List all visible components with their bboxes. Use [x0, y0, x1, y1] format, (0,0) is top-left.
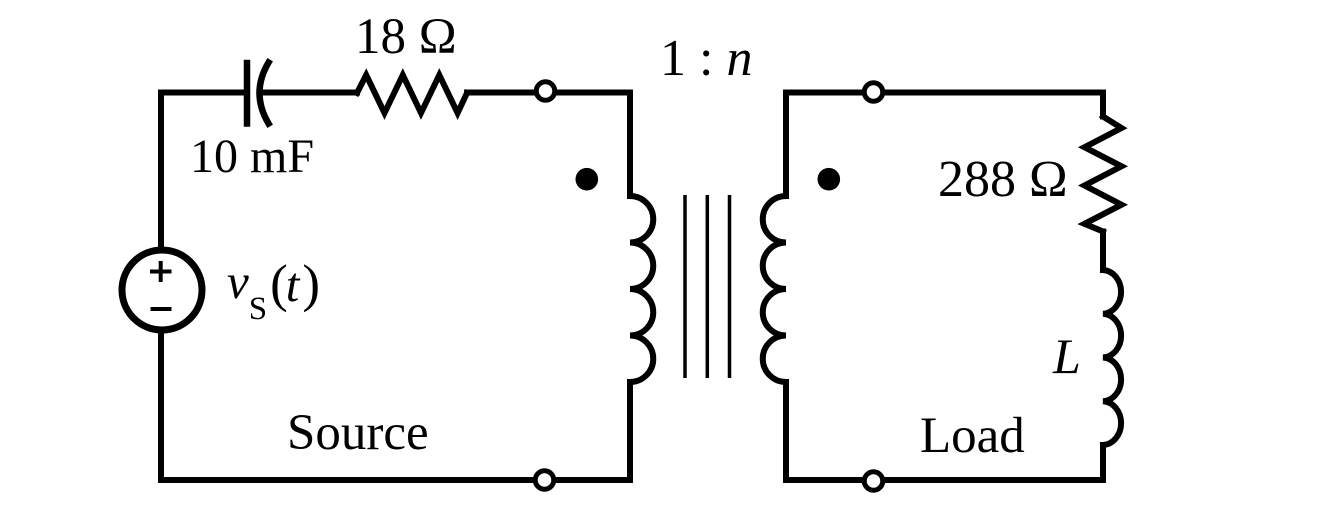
wire: left rail bottom segment + bottom wire of source loop — [161, 330, 630, 480]
svg-text:1 : n: 1 : n — [660, 30, 752, 87]
svg-text:vS(t): vS(t) — [227, 254, 320, 327]
capacitor C 10 mF right curved plate — [260, 63, 269, 124]
wire: primary winding bottom to bottom wire — [627, 382, 633, 480]
wire: left rail top segment + top wire to capacitor — [161, 93, 244, 251]
secondary polarity dot — [818, 168, 841, 191]
capacitor C 10 mF left plate — [244, 63, 251, 124]
voltage source V1 circle — [122, 250, 202, 330]
resistor R1 18 ohm zigzag — [357, 75, 467, 113]
svg-text:18 Ω: 18 Ω — [355, 9, 457, 65]
wire: secondary left rail top + top wire of load loop + down to resistor — [786, 93, 1103, 197]
resistor R2 288 ohm zigzag — [1085, 117, 1122, 232]
wire: secondary rail bottom + bottom wire of load loop — [786, 382, 1103, 480]
voltage source plus sign — [150, 261, 172, 282]
wire: resistor to primary top corner and down to winding — [467, 93, 630, 197]
svg-text:288 Ω: 288 Ω — [938, 151, 1068, 208]
inductor L winding — [1103, 270, 1121, 445]
transformer core lines — [685, 195, 730, 378]
transformer primary winding — [630, 196, 653, 382]
svg-text:L: L — [1052, 328, 1081, 384]
node terminal top of primary — [536, 82, 555, 101]
svg-text:Load: Load — [920, 408, 1025, 464]
node terminal bottom of secondary — [864, 472, 883, 491]
transformer secondary winding — [763, 196, 786, 382]
svg-text:10 mF: 10 mF — [190, 130, 314, 183]
node terminal top of secondary — [864, 83, 883, 102]
node terminal bottom of primary — [535, 471, 554, 490]
svg-text:Source: Source — [287, 405, 429, 461]
primary polarity dot — [576, 168, 599, 191]
wire: capacitor to resistor R1 — [260, 90, 358, 96]
wire: resistor 288 to inductor — [1100, 232, 1106, 271]
voltage source minus sign — [151, 307, 172, 311]
